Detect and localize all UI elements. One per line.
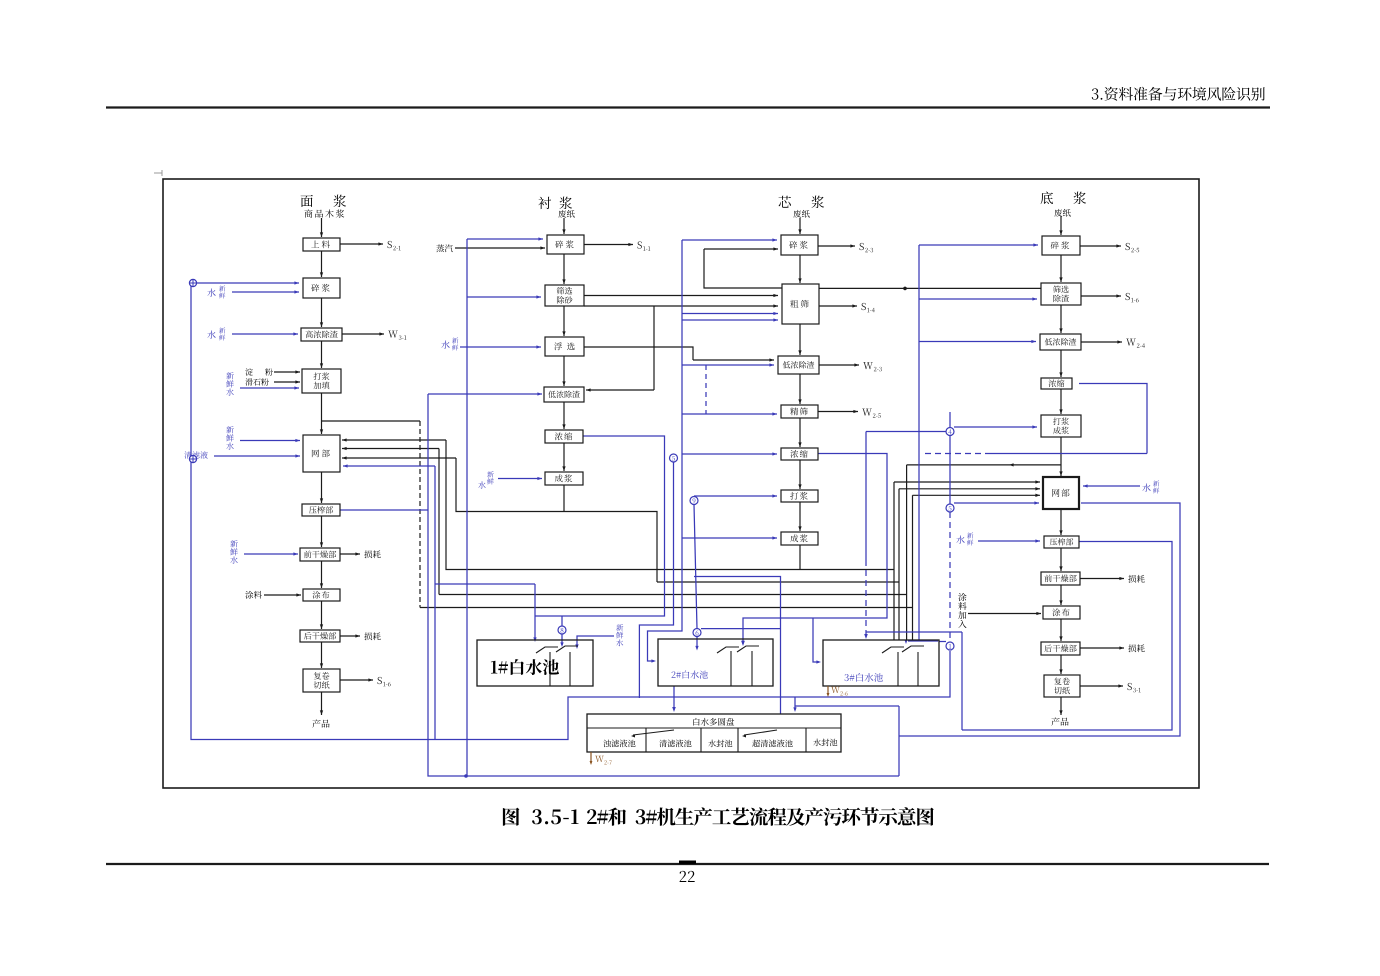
label 1#白水池 bbox=[491, 659, 559, 675]
process box 复卷切纸4 bbox=[1044, 675, 1080, 697]
wire blue 浓缩4 loop bbox=[1079, 384, 1147, 454]
wire weave V906 bbox=[906, 465, 908, 640]
wire blue ⑤b down bbox=[949, 512, 951, 641]
wire blue 3#池 left inlet bbox=[813, 618, 819, 662]
arrow into 1#池 bbox=[533, 637, 536, 642]
label 新鲜水5 bbox=[230, 540, 237, 547]
wire blue ④-⑤ bbox=[949, 436, 951, 505]
process box 压榨部1 bbox=[302, 504, 340, 516]
wire 损耗4a out bbox=[1080, 578, 1124, 580]
wire blue 网部1 right bbox=[434, 466, 436, 740]
wire blue into 成浆2 bbox=[498, 478, 542, 480]
label S2-5 bbox=[1126, 243, 1130, 250]
footer rule bbox=[106, 863, 1269, 865]
wire 打浆加填-网部 bbox=[321, 393, 323, 434]
wire blue into 碎浆4 bbox=[919, 244, 1038, 246]
wire blue ⑥ east bbox=[701, 628, 781, 630]
label 3#白水池 bbox=[844, 673, 882, 682]
label 涂料1 bbox=[245, 591, 262, 599]
wire blue into 打浆成浆4 bbox=[954, 426, 1037, 428]
wire blue loop R2 bbox=[962, 542, 1172, 731]
wire 浮选 to 低浓除渣3 bbox=[693, 359, 774, 361]
label 清滤液池 bbox=[659, 740, 691, 748]
title 底浆 bbox=[1041, 192, 1053, 205]
wire weave feed y495 bbox=[913, 494, 1041, 496]
wire 损耗1b out bbox=[340, 635, 360, 637]
label 水新鲜2 bbox=[207, 330, 215, 338]
node ⑥ bbox=[693, 629, 701, 637]
wire S3-1 out bbox=[1080, 685, 1123, 687]
wire into 网部1 y448 bbox=[342, 448, 439, 450]
process box 浓缩3 bbox=[781, 448, 818, 460]
wire blue V866 to 3#池 bbox=[865, 432, 867, 561]
wire 碎浆-高浓除渣 bbox=[321, 298, 323, 327]
wire S1-4 out bbox=[819, 305, 857, 307]
wire 滑石粉 in bbox=[274, 381, 300, 383]
wire blue into 成浆3 feed bbox=[682, 537, 777, 539]
node ⊕1 bbox=[189, 279, 196, 286]
process box 前干燥部1 bbox=[300, 548, 340, 561]
wire weave H582 bbox=[657, 581, 899, 583]
wire into 低浓除渣2 right bbox=[586, 389, 654, 391]
wire 商品木浆-上料 bbox=[321, 218, 323, 237]
label S1-6a bbox=[378, 677, 382, 684]
wire blue 多圆盘 top arrow bbox=[794, 697, 796, 710]
wire 碎浆3-粗筛 bbox=[799, 255, 801, 283]
node dot 776 bbox=[464, 774, 468, 778]
caption bbox=[503, 808, 579, 826]
wire blue into 浮选 bbox=[460, 346, 541, 348]
wire blue ⑤b east bbox=[954, 502, 1039, 504]
label 超清滤液池 bbox=[752, 740, 792, 748]
wire 粗筛 to 筛选除渣4 bbox=[819, 287, 1041, 289]
wire blue ④ west bbox=[866, 431, 946, 433]
node ⑧ bbox=[558, 626, 566, 634]
label 浊滤液池 bbox=[603, 740, 635, 748]
label 损耗4b bbox=[1128, 644, 1144, 652]
wire weave feed y482 bbox=[894, 481, 1040, 483]
wire blue ⑤a down bbox=[639, 462, 673, 698]
wire blue loop R1 bbox=[899, 503, 1180, 736]
pool 1# dividers bbox=[549, 652, 551, 686]
tank arrow1 bbox=[633, 730, 674, 735]
wire 高浓除渣-打浆加填 bbox=[321, 341, 323, 368]
wire 复卷切纸4-产品4 bbox=[1060, 697, 1062, 715]
process box 压榨部4 bbox=[1044, 536, 1079, 548]
label W2-5 bbox=[862, 409, 872, 416]
wire blue 压榨部1 out bbox=[340, 509, 428, 511]
page number 22 bbox=[680, 871, 695, 882]
pool 3# dividers bbox=[897, 652, 899, 686]
wire blue into 筛选除渣4 bbox=[919, 298, 1037, 300]
wire 网部4-压榨部4 bbox=[1060, 509, 1062, 535]
wire blue into 浓缩3 feed bbox=[682, 453, 777, 455]
wire 碎浆4-筛选除渣4 bbox=[1060, 255, 1062, 282]
footer tick bbox=[679, 861, 696, 865]
label 废纸4 bbox=[1054, 209, 1070, 217]
process box 前干燥部4 bbox=[1041, 572, 1080, 585]
wire weave 439 up bbox=[438, 449, 440, 595]
wire 网部-压榨部 bbox=[321, 472, 323, 503]
label W2-6 bbox=[0, 0, 1, 1]
label 淀粉 bbox=[245, 368, 252, 375]
wire 蒸汽 in bbox=[455, 247, 545, 249]
wire 压榨部4-前干燥部4 bbox=[1060, 548, 1062, 571]
wire blue H706 bbox=[795, 705, 899, 707]
process box 成浆3 bbox=[781, 532, 818, 545]
diagram frame bbox=[163, 179, 1199, 788]
header text bbox=[1092, 87, 1265, 101]
wire W2-4 out bbox=[1081, 341, 1122, 343]
label 白水多圆盘 bbox=[693, 718, 734, 726]
pool 2# pump symbol bbox=[717, 647, 739, 653]
wire blue into 前干燥部1 bbox=[244, 553, 298, 555]
wire S2-5 out bbox=[1080, 245, 1121, 247]
label 涂料加入 bbox=[958, 593, 966, 601]
wire weave dashed from 打浆加填 bbox=[322, 420, 421, 422]
wire blue dashed H453 bbox=[925, 453, 990, 455]
arrow blue into 网部1 y466 bbox=[343, 464, 348, 467]
wire 废纸-碎浆2 bbox=[563, 218, 565, 234]
wire 低浓除渣3-精筛 bbox=[799, 374, 801, 404]
wire 低浓除渣4-浓缩4 bbox=[1060, 350, 1062, 377]
tank divider bbox=[587, 727, 841, 729]
wire 后干燥部4-复卷切纸4 bbox=[1060, 655, 1062, 674]
process box 碎浆4 bbox=[1042, 236, 1080, 255]
wire 浮选 right bbox=[584, 347, 693, 360]
label 产品1 bbox=[312, 719, 329, 727]
wire 前干燥部-涂布 bbox=[321, 561, 323, 588]
wire blue into 碎浆1 b bbox=[232, 291, 299, 293]
wire blue ⑧ arrow bbox=[561, 634, 563, 645]
wire blue into 高浓除渣1 bbox=[232, 333, 298, 335]
wire blue into 压榨部4 bbox=[978, 540, 1040, 542]
wire 打浆成浆4-网部4 bbox=[1060, 437, 1062, 476]
process box 低浓除渣4 bbox=[1040, 334, 1081, 350]
wire blue into 碎浆2 bbox=[467, 238, 543, 240]
wire S1-6b out bbox=[1081, 295, 1121, 297]
wire blue V962 R2 bbox=[961, 632, 963, 730]
label 水封池a bbox=[708, 740, 732, 748]
node ④ bbox=[946, 428, 954, 436]
process box 涂布1 bbox=[303, 589, 340, 601]
wire 废纸-碎浆4 bbox=[1060, 216, 1062, 235]
wire weave H594 bbox=[439, 594, 907, 596]
label 水新鲜c2 bbox=[441, 340, 449, 348]
wire 废纸-碎浆3 bbox=[799, 218, 801, 234]
label 清滤液 bbox=[184, 451, 208, 458]
wire 筛选除砂2 right loop bbox=[584, 305, 778, 307]
process box 复卷切纸1 bbox=[303, 669, 340, 692]
wire weave 569-894 bbox=[800, 569, 894, 571]
wire weave H607.5 bbox=[420, 607, 913, 609]
wire 压榨部-前干燥部 bbox=[321, 516, 323, 547]
wire 浓缩2-成浆2 bbox=[563, 443, 565, 471]
wire blue 3#池 pump line bbox=[908, 640, 938, 642]
wire H464 junction bbox=[907, 464, 1061, 466]
label W2-7 bbox=[590, 752, 592, 763]
wire 涂料1 in bbox=[264, 594, 301, 596]
label 水新鲜y4 bbox=[956, 535, 964, 543]
process box 打浆加填 bbox=[302, 369, 341, 393]
wire 筛选除砂2 to 粗筛3 bbox=[584, 295, 778, 297]
label 新鲜水p1 bbox=[616, 624, 623, 631]
label W2-3 bbox=[863, 362, 873, 369]
wire blue 浓缩2 out bbox=[535, 436, 665, 616]
title 芯浆 bbox=[779, 196, 791, 208]
wire 碎浆2-筛选除砂 bbox=[563, 254, 565, 284]
wire 粗筛-低浓除渣3 bbox=[799, 324, 801, 355]
wire blue V899 bbox=[898, 706, 900, 776]
wire 浮选-低浓除渣2 bbox=[563, 356, 565, 386]
wire blue V467 bbox=[466, 239, 468, 776]
wire blue 3#池 to ① bbox=[939, 641, 946, 643]
wire blue into 碎浆3 bbox=[682, 239, 777, 241]
process box 碎浆2 bbox=[547, 235, 584, 254]
wire 前干燥部4-涂布4 bbox=[1060, 585, 1062, 605]
process box 打浆成浆4 bbox=[1041, 415, 1081, 437]
wire blue V535 into 1#池 bbox=[534, 584, 536, 640]
label 废纸2 bbox=[558, 210, 574, 218]
wire blue into 筛选除砂2 bbox=[467, 296, 541, 298]
wire blue 新鲜水 into 1#池 bbox=[577, 636, 614, 647]
wire S2-3 out bbox=[818, 245, 855, 247]
process box 网部1 bbox=[303, 435, 340, 472]
pool 2#白水池 bbox=[658, 639, 773, 686]
wire blue into 网部1 a bbox=[240, 440, 300, 442]
label 滑石粉 bbox=[245, 378, 268, 385]
process box 高浓除渣1 bbox=[301, 328, 342, 341]
label S2-3 bbox=[860, 243, 864, 250]
wire 成浆3-down bbox=[799, 545, 801, 570]
wire W2-5 out bbox=[818, 411, 858, 413]
wire blue into 粗筛 b bbox=[682, 319, 778, 321]
label 新鲜水3 bbox=[226, 372, 233, 379]
wire blue V919 bbox=[918, 245, 920, 640]
process box 网部4 bold bbox=[1043, 477, 1079, 509]
arrow into 2#池 left bbox=[651, 659, 656, 662]
wire blue 2#池 bottom out bbox=[673, 686, 675, 709]
crop mark bbox=[154, 172, 162, 174]
pool 3#白水池 bbox=[823, 640, 939, 686]
process box 浮选 bbox=[545, 337, 584, 356]
label W3-1 bbox=[388, 331, 398, 338]
wire S1-1 out bbox=[584, 244, 633, 246]
label 废纸3 bbox=[793, 210, 809, 218]
wire weave H511.5 bbox=[456, 458, 564, 512]
wire 低浓除渣2-浓缩2 bbox=[563, 402, 565, 429]
process box 筛选除渣4 bbox=[1041, 283, 1081, 305]
label 蒸汽 bbox=[436, 244, 452, 252]
process box 上料 bbox=[303, 238, 340, 251]
wire 浓缩3-打浆3 bbox=[799, 460, 801, 489]
wire into 网部1 y440 bbox=[342, 439, 446, 441]
wire blue dashed V706 bbox=[705, 365, 707, 414]
label S1-6b bbox=[1126, 293, 1130, 300]
wire weave feed y488 bbox=[899, 488, 1040, 490]
title 面浆 bbox=[301, 195, 313, 207]
process box 碎浆1 bbox=[303, 278, 340, 298]
label 商品木浆 bbox=[304, 209, 344, 217]
process box 浓缩4 bbox=[1041, 378, 1072, 389]
label 水封池b bbox=[813, 739, 837, 747]
label 水新鲜w4 bbox=[1142, 483, 1150, 491]
title 衬浆 bbox=[538, 197, 551, 209]
wire 损耗1a out bbox=[340, 553, 360, 555]
process box 涂布4 bbox=[1043, 606, 1080, 619]
wire S2-1 out bbox=[340, 243, 383, 245]
label 2#白水池 bbox=[672, 670, 708, 678]
process box 低浓除渣3 bbox=[778, 356, 819, 374]
label 新鲜水c2 bbox=[487, 471, 494, 477]
label 损耗1a bbox=[364, 550, 380, 558]
wire blue into 碎浆1 a bbox=[197, 282, 299, 284]
tank arrow2 bbox=[744, 730, 777, 735]
wire weave H569 bbox=[446, 440, 800, 570]
wire blue seg into 网部1 bbox=[343, 465, 435, 467]
process box 低浓除渣2 bbox=[544, 387, 584, 402]
wire 打浆3-成浆3 bbox=[799, 502, 801, 531]
process box 粗筛 bbox=[782, 284, 819, 324]
label 损耗4a bbox=[1128, 575, 1144, 583]
wire blue ⑧ stem bbox=[561, 616, 563, 626]
wire dashed vertical bbox=[419, 421, 421, 608]
wire W2-3 out bbox=[819, 364, 859, 366]
wire S1-6a out bbox=[340, 679, 373, 681]
process box 成浆2 bbox=[545, 472, 583, 485]
wire weave 511-657 bbox=[564, 512, 657, 583]
process box 打浆3 bbox=[781, 490, 818, 502]
wire 浓缩4-打浆成浆4 bbox=[1060, 389, 1062, 414]
wire blue into 打浆3 bbox=[694, 495, 777, 497]
wire weave V912 bbox=[912, 495, 914, 640]
wire blue into 低浓除渣2 bbox=[428, 393, 542, 395]
wire blue H632 from R2 bbox=[866, 631, 962, 633]
wire blue ④ stem up bbox=[949, 412, 951, 428]
wire 筛选除砂-浮选 bbox=[563, 306, 565, 336]
wire 复卷切纸-产品 bbox=[321, 692, 323, 715]
wire blue ⑥ arrow bbox=[696, 637, 698, 649]
pool 2# dividers bbox=[730, 651, 732, 686]
label W2-4 bbox=[1126, 339, 1136, 346]
pool 3# pump symbol bbox=[882, 647, 904, 653]
label S2-1 bbox=[388, 241, 392, 248]
node ⑤a bbox=[670, 454, 678, 462]
arrow into 2#池 top bbox=[741, 641, 745, 646]
wire blue into 低浓除渣4 bbox=[919, 341, 1036, 343]
wire blue into 精筛 bbox=[682, 413, 777, 415]
label 新鲜水4 bbox=[226, 426, 233, 433]
wire blue into 低浓除渣3 bbox=[682, 364, 774, 366]
wire blue H576 east bbox=[694, 577, 781, 715]
wire 损耗4b out bbox=[1080, 647, 1124, 649]
process box 后干燥部1 bbox=[300, 630, 340, 642]
node ⑤b bbox=[946, 504, 954, 512]
wire 筛选除渣4-低浓除渣4 bbox=[1060, 305, 1062, 333]
label 水新鲜1 bbox=[207, 288, 215, 296]
node ⊕2 bbox=[189, 455, 196, 462]
wire blue ⑨ down bbox=[694, 505, 697, 629]
process box 浓缩2 bbox=[545, 430, 583, 443]
tank cell dividers bbox=[645, 728, 647, 752]
wire weave V894 bbox=[893, 482, 895, 640]
wire 淀粉 in bbox=[274, 371, 300, 373]
pool 1#白水池 bbox=[477, 640, 593, 686]
wire 涂布4-后干燥部4 bbox=[1060, 619, 1062, 641]
wire into 网部1 y458 bbox=[342, 457, 456, 459]
process box 筛选除砂 bbox=[545, 285, 584, 306]
header rule bbox=[106, 106, 1270, 108]
label S1-4 bbox=[862, 303, 866, 310]
tank 白水多圆盘 bbox=[587, 714, 841, 752]
wire 涂料加入 in bbox=[968, 613, 1041, 615]
wire 涂布-后干燥部 bbox=[321, 601, 323, 629]
wire 成浆2-down bbox=[563, 485, 565, 512]
process box 精筛 bbox=[781, 405, 818, 418]
wire 上料-碎浆 bbox=[321, 251, 323, 277]
wire blue into 粗筛 a bbox=[682, 313, 778, 315]
wire 精筛-浓缩3 bbox=[799, 418, 801, 447]
wire blue V428 bbox=[428, 394, 899, 776]
wire blue into 网部1 b bbox=[214, 455, 300, 457]
label S3-1 bbox=[1128, 683, 1132, 690]
wire 粗筛 reject loop bbox=[704, 249, 782, 288]
process box 后干燥部4 bbox=[1041, 642, 1080, 655]
pool 1# pump symbol bbox=[536, 647, 558, 653]
node ① bbox=[946, 642, 954, 650]
process box 碎浆3 bbox=[781, 235, 818, 255]
node ⑨ bbox=[690, 497, 698, 505]
wire blue 浓缩3 out bbox=[743, 454, 887, 645]
label 产品4 bbox=[1051, 717, 1068, 725]
wire blue into 打浆加填 bbox=[240, 387, 299, 389]
label S1-1 bbox=[638, 241, 642, 248]
wire 后干燥部-复卷切纸 bbox=[321, 642, 323, 668]
label 损耗1b bbox=[364, 632, 380, 640]
wire weave V899b bbox=[898, 489, 900, 640]
wire W3-1 out bbox=[342, 333, 384, 335]
wire blue V682 bbox=[648, 240, 683, 661]
wire blue left riser bbox=[191, 283, 950, 740]
wire blue into 网部4 right bbox=[1083, 485, 1140, 487]
